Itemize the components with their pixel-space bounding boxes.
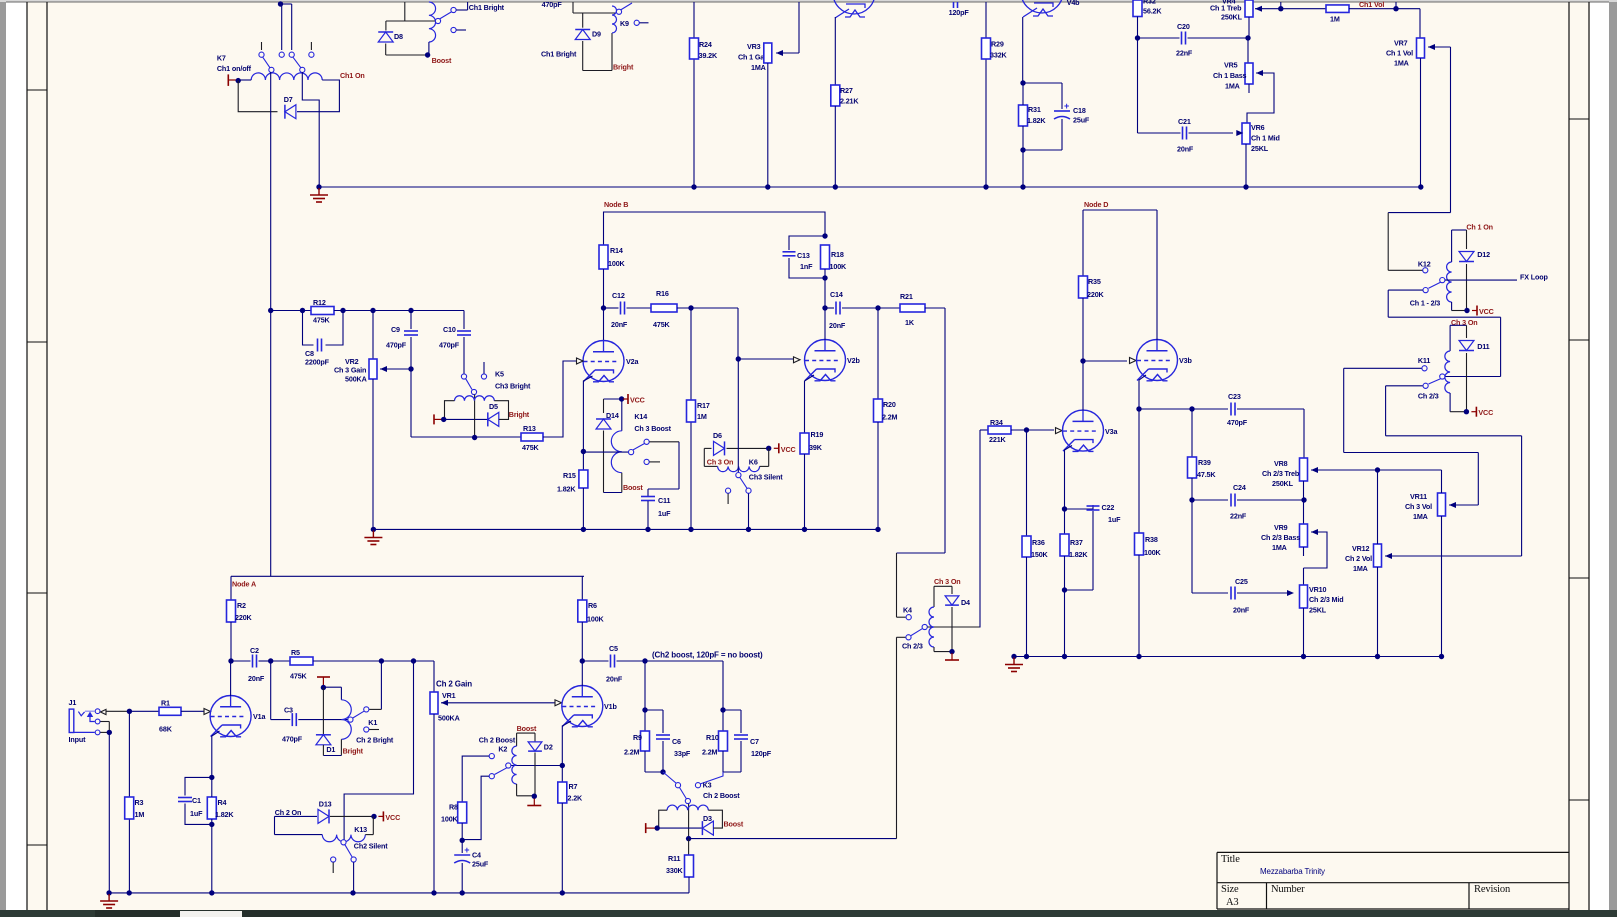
svg-text:C11: C11 [658, 496, 670, 505]
svg-text:D6: D6 [713, 431, 722, 440]
svg-text:Ch 1 Treb: Ch 1 Treb [1210, 4, 1242, 13]
svg-text:25KL: 25KL [1309, 606, 1327, 615]
svg-text:2.2K: 2.2K [568, 794, 584, 803]
svg-text:2.2M: 2.2M [624, 748, 640, 757]
svg-text:500KA: 500KA [438, 714, 460, 723]
svg-text:Node B: Node B [604, 200, 628, 209]
svg-text:D12: D12 [1477, 250, 1490, 259]
svg-text:22nF: 22nF [1176, 49, 1193, 58]
svg-text:R24: R24 [699, 40, 712, 49]
svg-text:Input: Input [69, 735, 87, 744]
svg-text:Ch 3 Gain: Ch 3 Gain [334, 366, 366, 375]
svg-text:VR12: VR12 [1352, 544, 1370, 553]
svg-text:R1: R1 [161, 699, 170, 708]
svg-text:470pF: 470pF [1227, 418, 1248, 427]
svg-text:D9: D9 [592, 30, 601, 39]
svg-text:475K: 475K [290, 672, 308, 681]
svg-text:(Ch2 boost, 120pF = no boost): (Ch2 boost, 120pF = no boost) [652, 651, 763, 660]
svg-text:R19: R19 [811, 430, 824, 439]
svg-text:FX Loop: FX Loop [1520, 273, 1548, 282]
svg-text:R32: R32 [1143, 0, 1156, 6]
svg-text:100K: 100K [587, 615, 605, 624]
svg-text:20nF: 20nF [606, 675, 623, 684]
svg-text:V3b: V3b [1179, 356, 1192, 365]
svg-text:1.82K: 1.82K [1069, 550, 1088, 559]
svg-text:D11: D11 [1477, 342, 1489, 351]
svg-text:20nF: 20nF [611, 320, 628, 329]
svg-text:Ch2 Silent: Ch2 Silent [354, 841, 388, 850]
svg-text:39K: 39K [809, 443, 823, 452]
svg-text:39.2K: 39.2K [699, 51, 718, 60]
svg-text:1uF: 1uF [1108, 515, 1121, 524]
svg-text:330K: 330K [666, 866, 684, 875]
svg-text:475K: 475K [653, 320, 671, 329]
svg-text:R31: R31 [1028, 105, 1041, 114]
svg-text:20nF: 20nF [1233, 606, 1250, 615]
svg-text:Number: Number [1271, 884, 1305, 895]
svg-text:R35: R35 [1088, 277, 1101, 286]
svg-text:25KL: 25KL [1251, 144, 1269, 153]
svg-text:D14: D14 [606, 411, 619, 420]
svg-text:C3: C3 [284, 706, 293, 715]
svg-text:VR10: VR10 [1309, 585, 1327, 594]
svg-text:K7: K7 [217, 54, 226, 63]
svg-text:2.2M: 2.2M [702, 748, 718, 757]
svg-text:1uF: 1uF [658, 509, 671, 518]
svg-text:Ch 2/3: Ch 2/3 [1418, 392, 1439, 401]
svg-text:R16: R16 [656, 289, 669, 298]
svg-text:C22: C22 [1102, 503, 1115, 512]
svg-text:500KA: 500KA [345, 375, 367, 384]
svg-text:Ch 3 Boost: Ch 3 Boost [634, 424, 671, 433]
svg-text:2200pF: 2200pF [305, 358, 330, 367]
svg-text:VR1: VR1 [442, 691, 456, 700]
svg-text:R12: R12 [313, 298, 326, 307]
svg-text:K9: K9 [620, 19, 629, 28]
svg-text:K13: K13 [354, 825, 367, 834]
svg-text:R11: R11 [668, 854, 680, 863]
svg-text:Ch 1 Bass: Ch 1 Bass [1213, 71, 1247, 80]
svg-text:470pF: 470pF [282, 735, 303, 744]
svg-text:R13: R13 [523, 424, 536, 433]
svg-text:2.2M: 2.2M [882, 413, 898, 422]
svg-text:D1: D1 [326, 745, 335, 754]
svg-text:Bright: Bright [343, 747, 364, 756]
svg-text:VCC: VCC [781, 445, 796, 454]
svg-text:R21: R21 [900, 292, 913, 301]
svg-text:22nF: 22nF [1230, 512, 1247, 521]
svg-text:R7: R7 [569, 782, 578, 791]
svg-text:D5: D5 [489, 402, 498, 411]
svg-text:25uF: 25uF [472, 860, 489, 869]
svg-text:1nF: 1nF [800, 262, 813, 271]
svg-text:220K: 220K [1087, 290, 1105, 299]
svg-text:VR8: VR8 [1274, 459, 1288, 468]
svg-text:C10: C10 [443, 325, 456, 334]
svg-text:D13: D13 [319, 799, 332, 808]
svg-text:332K: 332K [990, 51, 1008, 60]
svg-text:VCC: VCC [1479, 307, 1494, 316]
svg-text:K5: K5 [495, 370, 504, 379]
svg-text:VCC: VCC [630, 396, 645, 405]
svg-text:R2: R2 [237, 601, 246, 610]
svg-text:R38: R38 [1145, 535, 1158, 544]
svg-text:Ch 2/3 Mid: Ch 2/3 Mid [1309, 595, 1343, 604]
svg-text:Ch1 on/off: Ch1 on/off [217, 64, 252, 73]
svg-text:VR6: VR6 [1251, 123, 1265, 132]
svg-text:R27: R27 [840, 86, 853, 95]
svg-text:Title: Title [1221, 854, 1240, 865]
svg-text:1MA: 1MA [1225, 82, 1240, 91]
svg-text:120pF: 120pF [751, 749, 772, 758]
svg-text:R5: R5 [291, 648, 300, 657]
svg-text:C7: C7 [750, 737, 759, 746]
svg-text:1MA: 1MA [1394, 59, 1409, 68]
svg-text:Node A: Node A [232, 580, 256, 589]
svg-text:V2a: V2a [626, 357, 639, 366]
svg-text:C18: C18 [1073, 106, 1086, 115]
svg-text:56.2K: 56.2K [1143, 7, 1162, 16]
svg-text:1.82K: 1.82K [215, 810, 234, 819]
svg-text:220K: 220K [235, 613, 253, 622]
svg-text:K12: K12 [1418, 260, 1431, 269]
svg-text:R37: R37 [1070, 538, 1083, 547]
svg-text:C1: C1 [192, 796, 201, 805]
svg-text:Ch 2 On: Ch 2 On [275, 808, 302, 817]
svg-text:V1b: V1b [604, 702, 617, 711]
svg-text:Ch3 Silent: Ch3 Silent [749, 473, 783, 482]
svg-text:R15: R15 [563, 471, 576, 480]
svg-text:Node D: Node D [1084, 200, 1108, 209]
svg-text:Bright: Bright [509, 410, 530, 419]
svg-text:Ch 1 Vol: Ch 1 Vol [1386, 49, 1413, 58]
svg-text:R39: R39 [1198, 458, 1211, 467]
svg-text:R4: R4 [218, 798, 227, 807]
svg-text:VR9: VR9 [1274, 523, 1288, 532]
svg-text:R36: R36 [1032, 538, 1045, 547]
svg-text:221K: 221K [989, 435, 1007, 444]
svg-text:K1: K1 [368, 718, 377, 727]
svg-text:1.82K: 1.82K [1027, 116, 1046, 125]
svg-text:R6: R6 [588, 601, 597, 610]
svg-text:1MA: 1MA [1353, 564, 1368, 573]
svg-text:100K: 100K [1144, 548, 1162, 557]
svg-text:20nF: 20nF [248, 674, 265, 683]
svg-text:1MA: 1MA [1413, 512, 1428, 521]
svg-text:Size: Size [1221, 884, 1239, 895]
svg-text:R34: R34 [990, 418, 1003, 427]
svg-text:1M: 1M [697, 412, 707, 421]
svg-text:V4b: V4b [1067, 0, 1080, 7]
svg-text:VR11: VR11 [1410, 492, 1427, 501]
svg-text:2.21K: 2.21K [840, 97, 859, 106]
svg-text:C12: C12 [612, 291, 625, 300]
svg-text:1MA: 1MA [1272, 543, 1287, 552]
svg-text:1M: 1M [1330, 15, 1340, 24]
svg-text:470pF: 470pF [386, 341, 407, 350]
svg-text:VCC: VCC [1478, 408, 1493, 417]
svg-text:Ch 2 Bright: Ch 2 Bright [356, 735, 394, 744]
svg-text:K6: K6 [749, 458, 758, 467]
svg-text:Boost: Boost [623, 483, 643, 492]
svg-text:Boost: Boost [724, 820, 744, 829]
svg-text:33pF: 33pF [674, 749, 691, 758]
svg-text:C4: C4 [472, 851, 481, 860]
svg-text:Ch 3 On: Ch 3 On [707, 458, 734, 467]
svg-text:470pF: 470pF [542, 0, 563, 9]
svg-text:Ch1 Bright: Ch1 Bright [541, 49, 577, 58]
svg-text:Ch 3 Vol: Ch 3 Vol [1405, 502, 1432, 511]
svg-text:150K: 150K [1031, 550, 1049, 559]
svg-text:Ch1 On: Ch1 On [340, 71, 365, 80]
svg-text:C21: C21 [1178, 117, 1191, 126]
svg-text:K4: K4 [903, 606, 912, 615]
svg-text:C5: C5 [609, 644, 618, 653]
svg-text:R17: R17 [697, 401, 710, 410]
svg-text:Ch 2 Vol: Ch 2 Vol [1345, 554, 1372, 563]
svg-text:D2: D2 [544, 743, 553, 752]
svg-text:Ch1 Bright: Ch1 Bright [469, 3, 505, 12]
svg-text:C23: C23 [1228, 392, 1241, 401]
svg-text:Boost: Boost [517, 724, 537, 733]
svg-text:Ch 2/3 Treb: Ch 2/3 Treb [1262, 469, 1300, 478]
svg-text:Ch 2/3: Ch 2/3 [902, 642, 923, 651]
svg-text:D7: D7 [284, 95, 293, 104]
svg-text:1K: 1K [905, 318, 915, 327]
svg-text:K3: K3 [703, 781, 712, 790]
svg-text:R18: R18 [831, 250, 844, 259]
svg-text:C9: C9 [391, 325, 400, 334]
svg-text:C13: C13 [797, 251, 810, 260]
svg-text:100K: 100K [441, 815, 459, 824]
svg-text:D3: D3 [703, 814, 712, 823]
svg-text:25uF: 25uF [1073, 116, 1090, 125]
svg-text:C24: C24 [1233, 483, 1246, 492]
svg-text:C2: C2 [250, 646, 259, 655]
svg-text:VCC: VCC [385, 813, 400, 822]
svg-text:Revision: Revision [1474, 884, 1511, 895]
svg-text:+: + [1064, 101, 1069, 111]
svg-text:47.5K: 47.5K [1197, 470, 1216, 479]
svg-text:Ch1 Vol: Ch1 Vol [1359, 0, 1384, 9]
svg-text:C25: C25 [1235, 577, 1248, 586]
svg-text:V1a: V1a [253, 712, 266, 721]
svg-text:Ch 2 Boost: Ch 2 Boost [479, 736, 516, 745]
svg-text:K11: K11 [1418, 356, 1430, 365]
svg-text:J1: J1 [69, 698, 77, 707]
svg-text:20nF: 20nF [1177, 145, 1194, 154]
svg-text:R14: R14 [610, 246, 623, 255]
svg-text:V3a: V3a [1105, 427, 1118, 436]
svg-text:100K: 100K [830, 262, 848, 271]
svg-text:Ch3 Bright: Ch3 Bright [495, 382, 531, 391]
svg-text:475K: 475K [313, 316, 331, 325]
svg-text:VR3: VR3 [747, 42, 761, 51]
svg-text:250KL: 250KL [1221, 13, 1243, 22]
svg-text:D8: D8 [394, 32, 403, 41]
svg-text:C20: C20 [1177, 22, 1190, 31]
svg-text:68K: 68K [159, 725, 173, 734]
svg-text:A3: A3 [1226, 897, 1239, 908]
svg-text:Boost: Boost [432, 56, 452, 65]
svg-text:Mezzabarba Trinity: Mezzabarba Trinity [1260, 867, 1325, 876]
svg-text:R29: R29 [991, 40, 1004, 49]
svg-text:1M: 1M [135, 810, 145, 819]
svg-text:R3: R3 [135, 798, 144, 807]
svg-text:Ch 2 Gain: Ch 2 Gain [436, 680, 472, 689]
svg-text:R9: R9 [633, 733, 642, 742]
svg-text:R20: R20 [883, 400, 896, 409]
svg-text:VR7: VR7 [1394, 39, 1408, 48]
svg-text:1MA: 1MA [751, 63, 766, 72]
svg-text:20nF: 20nF [829, 321, 846, 330]
svg-text:R8: R8 [449, 803, 458, 812]
svg-text:C14: C14 [830, 290, 843, 299]
svg-text:Ch 1 On: Ch 1 On [1466, 223, 1493, 232]
svg-text:Ch 1 - 2/3: Ch 1 - 2/3 [1410, 299, 1441, 308]
svg-text:K14: K14 [634, 412, 647, 421]
svg-text:470pF: 470pF [439, 341, 460, 350]
svg-text:V2b: V2b [847, 356, 860, 365]
svg-text:120pF: 120pF [949, 8, 970, 17]
svg-text:1.82K: 1.82K [557, 485, 576, 494]
svg-text:475K: 475K [522, 443, 540, 452]
svg-text:100K: 100K [608, 259, 626, 268]
svg-text:Bright: Bright [613, 63, 634, 72]
svg-text:Ch 2 Boost: Ch 2 Boost [703, 791, 740, 800]
svg-text:250KL: 250KL [1272, 479, 1294, 488]
svg-text:Ch 1 Mid: Ch 1 Mid [1251, 134, 1280, 143]
svg-text:VR5: VR5 [1224, 61, 1238, 70]
svg-text:R10: R10 [706, 733, 719, 742]
svg-text:D4: D4 [961, 598, 970, 607]
svg-text:+: + [464, 845, 469, 855]
svg-text:Ch 3 On: Ch 3 On [934, 577, 961, 586]
svg-text:K2: K2 [498, 745, 507, 754]
svg-text:C6: C6 [672, 737, 681, 746]
svg-text:Ch 2/3 Bass: Ch 2/3 Bass [1261, 533, 1300, 542]
svg-text:1uF: 1uF [190, 809, 203, 818]
